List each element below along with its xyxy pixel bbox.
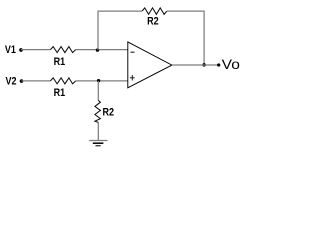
junction node A: [96, 48, 99, 51]
node V2 terminal dot: [20, 79, 24, 83]
svg-text:V2: V2: [6, 76, 17, 88]
resistor R2 (feedback): [142, 8, 167, 14]
junction node at output: [202, 63, 206, 67]
wire R1 to op-amp inverting input: [76, 49, 128, 51]
node V1 terminal dot: [19, 48, 23, 52]
wire V1 to R1: [21, 49, 50, 51]
wire R2 to ground: [97, 122, 99, 140]
wire feedback top left segment: [98, 10, 143, 12]
svg-text:R1: R1: [54, 56, 66, 68]
resistor R1 (inverting input): [50, 47, 75, 53]
svg-text:R2: R2: [103, 106, 115, 118]
op-amp minus sign: [131, 51, 135, 53]
svg-text:Vo: Vo: [222, 56, 240, 72]
wire feedback vertical left: [97, 11, 99, 50]
node Vo terminal dot: [217, 63, 220, 66]
svg-text:V1: V1: [5, 44, 16, 56]
junction node B: [97, 79, 100, 82]
svg-text:R2: R2: [147, 16, 159, 28]
resistor R2 (to ground, vertical): [95, 100, 101, 122]
op-amp U1: [128, 42, 172, 88]
ground: [89, 141, 107, 146]
wire V2 to R1: [22, 80, 51, 82]
wire R1 to op-amp non-inverting input: [76, 80, 128, 82]
wire node B down to R2: [97, 81, 99, 101]
op-amp plus sign: [130, 75, 135, 81]
svg-text:R1: R1: [54, 87, 66, 99]
resistor R1 (non-inverting input): [50, 78, 75, 84]
wire feedback top right segment and right vertical: [167, 11, 204, 65]
wire op-amp output to Vo: [172, 64, 219, 66]
